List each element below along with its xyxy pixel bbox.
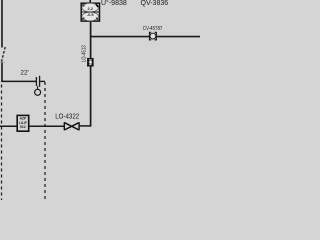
- svg-text:QV-3836: QV-3836: [141, 0, 169, 7]
- svg-text:912: 912: [20, 124, 26, 129]
- svg-text:CV-45787: CV-45787: [143, 26, 163, 32]
- svg-text:22': 22': [20, 70, 28, 77]
- svg-text:-0.5: -0.5: [87, 12, 95, 17]
- svg-text:2.2: 2.2: [87, 6, 93, 11]
- svg-text:LO-4513: LO-4513: [82, 45, 88, 62]
- svg-text:LO-4322: LO-4322: [55, 114, 79, 121]
- svg-text:U°-9838: U°-9838: [101, 0, 127, 7]
